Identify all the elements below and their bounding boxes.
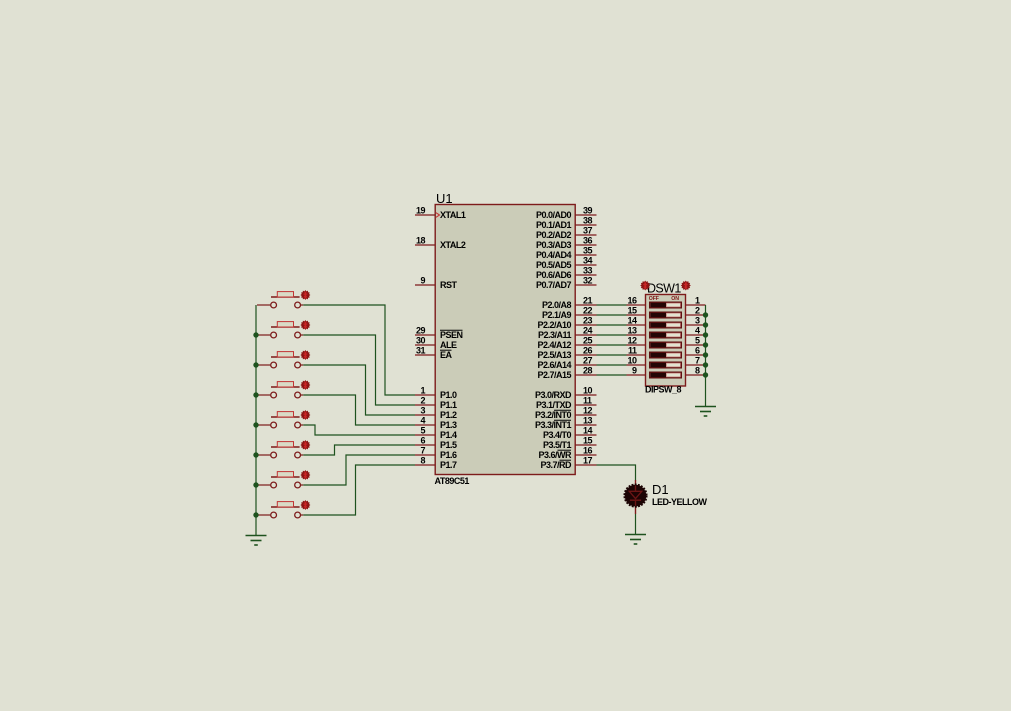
svg-text:AT89C51: AT89C51 xyxy=(435,476,470,486)
U1 reference label xyxy=(436,191,453,206)
wire SW4 to U1 P1.3 xyxy=(303,395,415,425)
svg-text:P1.2: P1.2 xyxy=(440,410,457,420)
DSW1 switch element 2 (OFF) xyxy=(650,312,681,317)
U1 pin 26 (P2.5/A13) xyxy=(537,346,596,361)
DSW1 pin 9 (left) xyxy=(627,366,646,376)
D1 value label LED-YELLOW xyxy=(652,497,707,507)
U1 pin 6 (P1.5) xyxy=(415,436,457,451)
svg-text:11: 11 xyxy=(628,346,637,356)
wire U1 P2.4 to DSW1 pin 12 xyxy=(597,344,627,346)
LED D1 xyxy=(624,480,646,514)
svg-text:P1.0: P1.0 xyxy=(440,390,457,400)
wire U1 P2.3 to DSW1 pin 13 xyxy=(597,334,627,336)
wire SW2 to U1 P1.1 xyxy=(303,335,415,405)
junction on DSW1 bus xyxy=(703,332,708,337)
DSW1 pin 7 (right) xyxy=(686,356,706,366)
svg-text:10: 10 xyxy=(627,356,637,366)
svg-text:16: 16 xyxy=(627,296,637,306)
svg-text:P3.2/INT0: P3.2/INT0 xyxy=(535,410,572,420)
svg-text:11: 11 xyxy=(583,396,592,406)
svg-text:2: 2 xyxy=(695,306,700,316)
junction on DSW1 bus xyxy=(703,342,708,347)
DSW1 pin 1 (right) xyxy=(686,296,706,306)
DSW1 pin 2 (right) xyxy=(686,306,706,316)
wire SW5 to U1 P1.4 xyxy=(303,425,415,435)
DSW1 ON label xyxy=(671,296,679,302)
DSW1 switch element 7 (OFF) xyxy=(650,362,681,367)
wire U1 P2.2 to DSW1 pin 14 xyxy=(597,324,627,326)
svg-text:27: 27 xyxy=(583,356,593,366)
U1 pin 33 (P0.6/AD6) xyxy=(536,266,597,281)
svg-text:1: 1 xyxy=(695,296,700,306)
junction on button ground bus xyxy=(253,512,258,517)
U1 pin 14 (P3.4/T0) xyxy=(543,426,597,441)
svg-text:P1.7: P1.7 xyxy=(440,460,457,470)
svg-text:EA: EA xyxy=(440,350,453,360)
svg-text:P0.2/AD2: P0.2/AD2 xyxy=(536,230,572,240)
svg-text:36: 36 xyxy=(583,236,593,246)
junction on DSW1 bus xyxy=(703,362,708,367)
svg-text:P1.5: P1.5 xyxy=(440,440,457,450)
DSW1 pin 14 (left) xyxy=(627,316,646,326)
ground (DSW1 bus) xyxy=(695,407,716,417)
DIP switch DSW1 body xyxy=(646,295,686,387)
svg-text:13: 13 xyxy=(583,416,593,426)
svg-text:3: 3 xyxy=(695,316,700,326)
svg-text:P2.7/A15: P2.7/A15 xyxy=(537,370,571,380)
svg-text:3: 3 xyxy=(420,406,425,416)
svg-text:P0.1/AD1: P0.1/AD1 xyxy=(536,220,572,230)
U1 pin 25 (P2.4/A12) xyxy=(537,336,596,351)
svg-text:9: 9 xyxy=(420,276,425,286)
DSW1 actuator marker left xyxy=(640,281,650,291)
svg-text:P1.1: P1.1 xyxy=(440,400,457,410)
svg-text:XTAL1: XTAL1 xyxy=(440,210,466,220)
U1 pin 3 (P1.2) xyxy=(415,406,457,421)
svg-text:32: 32 xyxy=(583,276,593,286)
svg-text:28: 28 xyxy=(583,366,593,376)
svg-text:15: 15 xyxy=(627,306,637,316)
svg-text:P1.4: P1.4 xyxy=(440,430,457,440)
svg-text:14: 14 xyxy=(583,426,593,436)
U1 pin 39 (P0.0/AD0) xyxy=(536,206,597,221)
svg-text:P3.5/T1: P3.5/T1 xyxy=(543,440,572,450)
junction on button ground bus xyxy=(253,392,258,397)
wire SW6 to U1 P1.5 xyxy=(303,445,415,455)
push button SW1 (to P1.0) xyxy=(257,292,303,308)
svg-text:P0.0/AD0: P0.0/AD0 xyxy=(536,210,572,220)
U1 XTAL1 clock chevron xyxy=(436,213,440,218)
push button SW5 (to P1.4) xyxy=(257,412,303,428)
wire U1 P2.0 to DSW1 pin 16 xyxy=(597,304,627,306)
svg-text:P3.6/WR: P3.6/WR xyxy=(538,450,572,460)
push button SW8 actuator marker xyxy=(300,500,310,510)
junction on button ground bus xyxy=(253,422,258,427)
junction on button ground bus xyxy=(253,452,258,457)
push button SW5 actuator marker xyxy=(300,410,310,420)
U1 pin 29 (PSEN) xyxy=(415,326,463,341)
svg-text:2: 2 xyxy=(420,396,425,406)
svg-text:7: 7 xyxy=(420,446,425,456)
svg-text:U1: U1 xyxy=(436,191,453,206)
U1 pin 24 (P2.3/A11) xyxy=(538,326,597,341)
svg-text:31: 31 xyxy=(416,346,426,356)
DSW1 value label DIPSW_8 xyxy=(645,385,682,395)
svg-text:1: 1 xyxy=(420,386,425,396)
svg-text:12: 12 xyxy=(583,406,593,416)
U1 pin 8 (P1.7) xyxy=(415,456,457,471)
svg-text:18: 18 xyxy=(416,236,426,246)
DSW1 switch element 1 (OFF) xyxy=(650,302,681,307)
svg-text:39: 39 xyxy=(583,206,593,216)
DSW1 pin 3 (right) xyxy=(686,316,706,326)
wire: button ground bus xyxy=(255,305,257,536)
svg-text:21: 21 xyxy=(583,296,593,306)
DSW1 switch element 4 (OFF) xyxy=(650,332,681,337)
U1 pin 1 (P1.0) xyxy=(415,386,457,401)
svg-text:P3.4/T0: P3.4/T0 xyxy=(543,430,572,440)
svg-text:P3.1/TXD: P3.1/TXD xyxy=(536,400,572,410)
wire U1 P2.7 to DSW1 pin 9 xyxy=(597,374,627,376)
svg-text:P2.0/A8: P2.0/A8 xyxy=(542,300,572,310)
U1 pin 28 (P2.7/A15) xyxy=(537,366,596,381)
svg-text:9: 9 xyxy=(632,366,637,376)
U1 pin 22 (P2.1/A9) xyxy=(542,306,597,321)
DSW1 pin 16 (left) xyxy=(627,296,646,306)
svg-text:34: 34 xyxy=(583,256,593,266)
svg-text:DIPSW_8: DIPSW_8 xyxy=(645,385,682,395)
U1 pin 23 (P2.2/A10) xyxy=(537,316,596,331)
svg-text:P2.5/A13: P2.5/A13 xyxy=(537,350,571,360)
U1 pin 7 (P1.6) xyxy=(415,446,457,461)
wire U1 P2.1 to DSW1 pin 15 xyxy=(597,314,627,316)
U1 pin 35 (P0.4/AD4) xyxy=(536,246,597,261)
junction on button ground bus xyxy=(253,362,258,367)
svg-text:P2.3/A11: P2.3/A11 xyxy=(538,330,572,340)
DSW1 pin 6 (right) xyxy=(686,346,706,356)
U1 pin 15 (P3.5/T1) xyxy=(543,436,597,451)
U1 pin 13 (P3.3/INT1) xyxy=(535,416,597,431)
svg-text:ALE: ALE xyxy=(440,340,457,350)
push button SW4 actuator marker xyxy=(300,380,310,390)
junction on DSW1 bus xyxy=(703,312,708,317)
DSW1 reference label xyxy=(647,282,681,296)
svg-text:33: 33 xyxy=(583,266,593,276)
wire D1 cathode to ground xyxy=(635,514,637,535)
U1 pin 4 (P1.3) xyxy=(415,416,457,431)
DSW1 switch element 6 (OFF) xyxy=(650,352,681,357)
svg-text:P1.3: P1.3 xyxy=(440,420,457,430)
U1 pin 10 (P3.0/RXD) xyxy=(535,386,597,401)
svg-text:16: 16 xyxy=(583,446,593,456)
push button SW8 (to P1.7) xyxy=(257,502,303,518)
junction on DSW1 bus xyxy=(703,372,708,377)
svg-text:P1.6: P1.6 xyxy=(440,450,457,460)
DSW1 switch element 3 (OFF) xyxy=(650,322,681,327)
svg-text:PSEN: PSEN xyxy=(440,330,463,340)
svg-text:P0.4/AD4: P0.4/AD4 xyxy=(536,250,572,260)
svg-text:37: 37 xyxy=(583,226,593,236)
U1 pin 18 (XTAL2) xyxy=(415,236,466,251)
svg-text:22: 22 xyxy=(583,306,593,316)
DSW1 switch element 5 (OFF) xyxy=(650,342,681,347)
wire: DSW1 right common bus xyxy=(705,305,707,407)
svg-text:14: 14 xyxy=(627,316,637,326)
junction on button ground bus xyxy=(253,332,258,337)
svg-text:P3.0/RXD: P3.0/RXD xyxy=(535,390,572,400)
ground (buttons) xyxy=(246,536,267,546)
svg-text:12: 12 xyxy=(627,336,637,346)
junction on DSW1 bus xyxy=(703,352,708,357)
U1 value label AT89C51 xyxy=(435,476,470,486)
push button SW2 actuator marker xyxy=(300,320,310,330)
wire SW3 to U1 P1.2 xyxy=(303,365,415,415)
svg-text:D1: D1 xyxy=(652,482,669,497)
U1 pin 16 (P3.6/WR) xyxy=(538,446,596,461)
U1 pin 37 (P0.2/AD2) xyxy=(536,226,597,241)
svg-text:6: 6 xyxy=(695,346,700,356)
DSW1 OFF label xyxy=(649,296,659,302)
svg-text:6: 6 xyxy=(420,436,425,446)
wire U1 P2.5 to DSW1 pin 11 xyxy=(597,354,627,356)
svg-text:RST: RST xyxy=(440,280,458,290)
ground (D1) xyxy=(625,535,646,545)
push button SW7 (to P1.6) xyxy=(257,472,303,488)
svg-text:5: 5 xyxy=(695,336,700,346)
DSW1 pin 5 (right) xyxy=(686,336,706,346)
svg-text:17: 17 xyxy=(583,456,593,466)
U1 pin 34 (P0.5/AD5) xyxy=(536,256,597,271)
svg-text:15: 15 xyxy=(583,436,593,446)
svg-text:13: 13 xyxy=(627,326,637,336)
U1 pin 27 (P2.6/A14) xyxy=(537,356,596,371)
DSW1 pin 12 (left) xyxy=(627,336,646,346)
DSW1 pin 4 (right) xyxy=(686,326,706,336)
svg-text:29: 29 xyxy=(416,326,426,336)
U1 pin 31 (EA) xyxy=(415,346,453,361)
U1 pin 21 (P2.0/A8) xyxy=(542,296,597,311)
svg-text:P0.5/AD5: P0.5/AD5 xyxy=(536,260,572,270)
wire U1 P2.6 to DSW1 pin 10 xyxy=(597,364,627,366)
U1 pin 38 (P0.1/AD1) xyxy=(536,216,597,231)
svg-text:38: 38 xyxy=(583,216,593,226)
U1 pin 11 (P3.1/TXD) xyxy=(536,396,597,411)
svg-text:23: 23 xyxy=(583,316,593,326)
U1 pin 17 (P3.7/RD) xyxy=(540,456,596,471)
U1 pin 5 (P1.4) xyxy=(415,426,457,441)
svg-text:P2.2/A10: P2.2/A10 xyxy=(537,320,571,330)
svg-text:35: 35 xyxy=(583,246,593,256)
svg-text:25: 25 xyxy=(583,336,593,346)
svg-text:26: 26 xyxy=(583,346,593,356)
wire SW8 to U1 P1.7 xyxy=(303,465,415,515)
svg-text:DSW1: DSW1 xyxy=(647,282,681,296)
svg-text:P0.3/AD3: P0.3/AD3 xyxy=(536,240,572,250)
svg-text:8: 8 xyxy=(695,366,700,376)
push button SW6 actuator marker xyxy=(300,440,310,450)
U1 pin 32 (P0.7/AD7) xyxy=(536,276,597,291)
push button SW2 (to P1.1) xyxy=(257,322,303,338)
svg-text:19: 19 xyxy=(416,206,426,216)
svg-text:24: 24 xyxy=(583,326,593,336)
U1 pin 30 (ALE) xyxy=(415,336,457,351)
svg-text:30: 30 xyxy=(416,336,426,346)
IC U1 AT89C51 microcontroller body xyxy=(435,205,575,475)
svg-text:LED-YELLOW: LED-YELLOW xyxy=(652,497,707,507)
U1 pin 2 (P1.1) xyxy=(415,396,457,411)
push button SW6 (to P1.5) xyxy=(257,442,303,458)
push button SW4 (to P1.3) xyxy=(257,382,303,398)
svg-text:4: 4 xyxy=(420,416,425,426)
push button SW3 actuator marker xyxy=(300,350,310,360)
DSW1 pin 13 (left) xyxy=(627,326,646,336)
junction on DSW1 bus xyxy=(703,322,708,327)
svg-text:5: 5 xyxy=(420,426,425,436)
svg-text:P2.1/A9: P2.1/A9 xyxy=(542,310,572,320)
svg-text:P2.6/A14: P2.6/A14 xyxy=(537,360,571,370)
wire SW1 to U1 P1.0 xyxy=(303,305,415,395)
wire SW7 to U1 P1.6 xyxy=(303,455,415,485)
svg-text:7: 7 xyxy=(695,356,700,366)
U1 pin 9 (RST) xyxy=(415,276,458,291)
svg-text:P3.7/RD: P3.7/RD xyxy=(540,460,572,470)
U1 pin 12 (P3.2/INT0) xyxy=(535,406,597,421)
wire U1 P3.7 to D1 anode xyxy=(597,465,636,481)
push button SW7 actuator marker xyxy=(300,470,310,480)
DSW1 pin 10 (left) xyxy=(627,356,646,366)
DSW1 pin 8 (right) xyxy=(686,366,706,376)
DSW1 switch element 8 (OFF) xyxy=(650,372,681,377)
push button SW1 actuator marker xyxy=(300,290,310,300)
DSW1 pin 11 (left) xyxy=(627,346,646,356)
svg-text:P2.4/A12: P2.4/A12 xyxy=(537,340,571,350)
D1 reference label xyxy=(652,482,669,497)
svg-text:P3.3/INT1: P3.3/INT1 xyxy=(535,420,572,430)
svg-text:P0.7/AD7: P0.7/AD7 xyxy=(536,280,572,290)
svg-text:P0.6/AD6: P0.6/AD6 xyxy=(536,270,572,280)
svg-text:OFF: OFF xyxy=(649,296,659,302)
junction on button ground bus xyxy=(253,482,258,487)
svg-text:XTAL2: XTAL2 xyxy=(440,240,466,250)
svg-text:4: 4 xyxy=(695,326,700,336)
svg-text:8: 8 xyxy=(420,456,425,466)
U1 pin 19 (XTAL1) xyxy=(415,206,466,221)
DSW1 actuator marker right xyxy=(681,281,691,291)
push button SW3 (to P1.2) xyxy=(257,352,303,368)
DSW1 pin 15 (left) xyxy=(627,306,646,316)
U1 pin 36 (P0.3/AD3) xyxy=(536,236,597,251)
svg-text:10: 10 xyxy=(583,386,593,396)
svg-text:ON: ON xyxy=(671,296,679,302)
